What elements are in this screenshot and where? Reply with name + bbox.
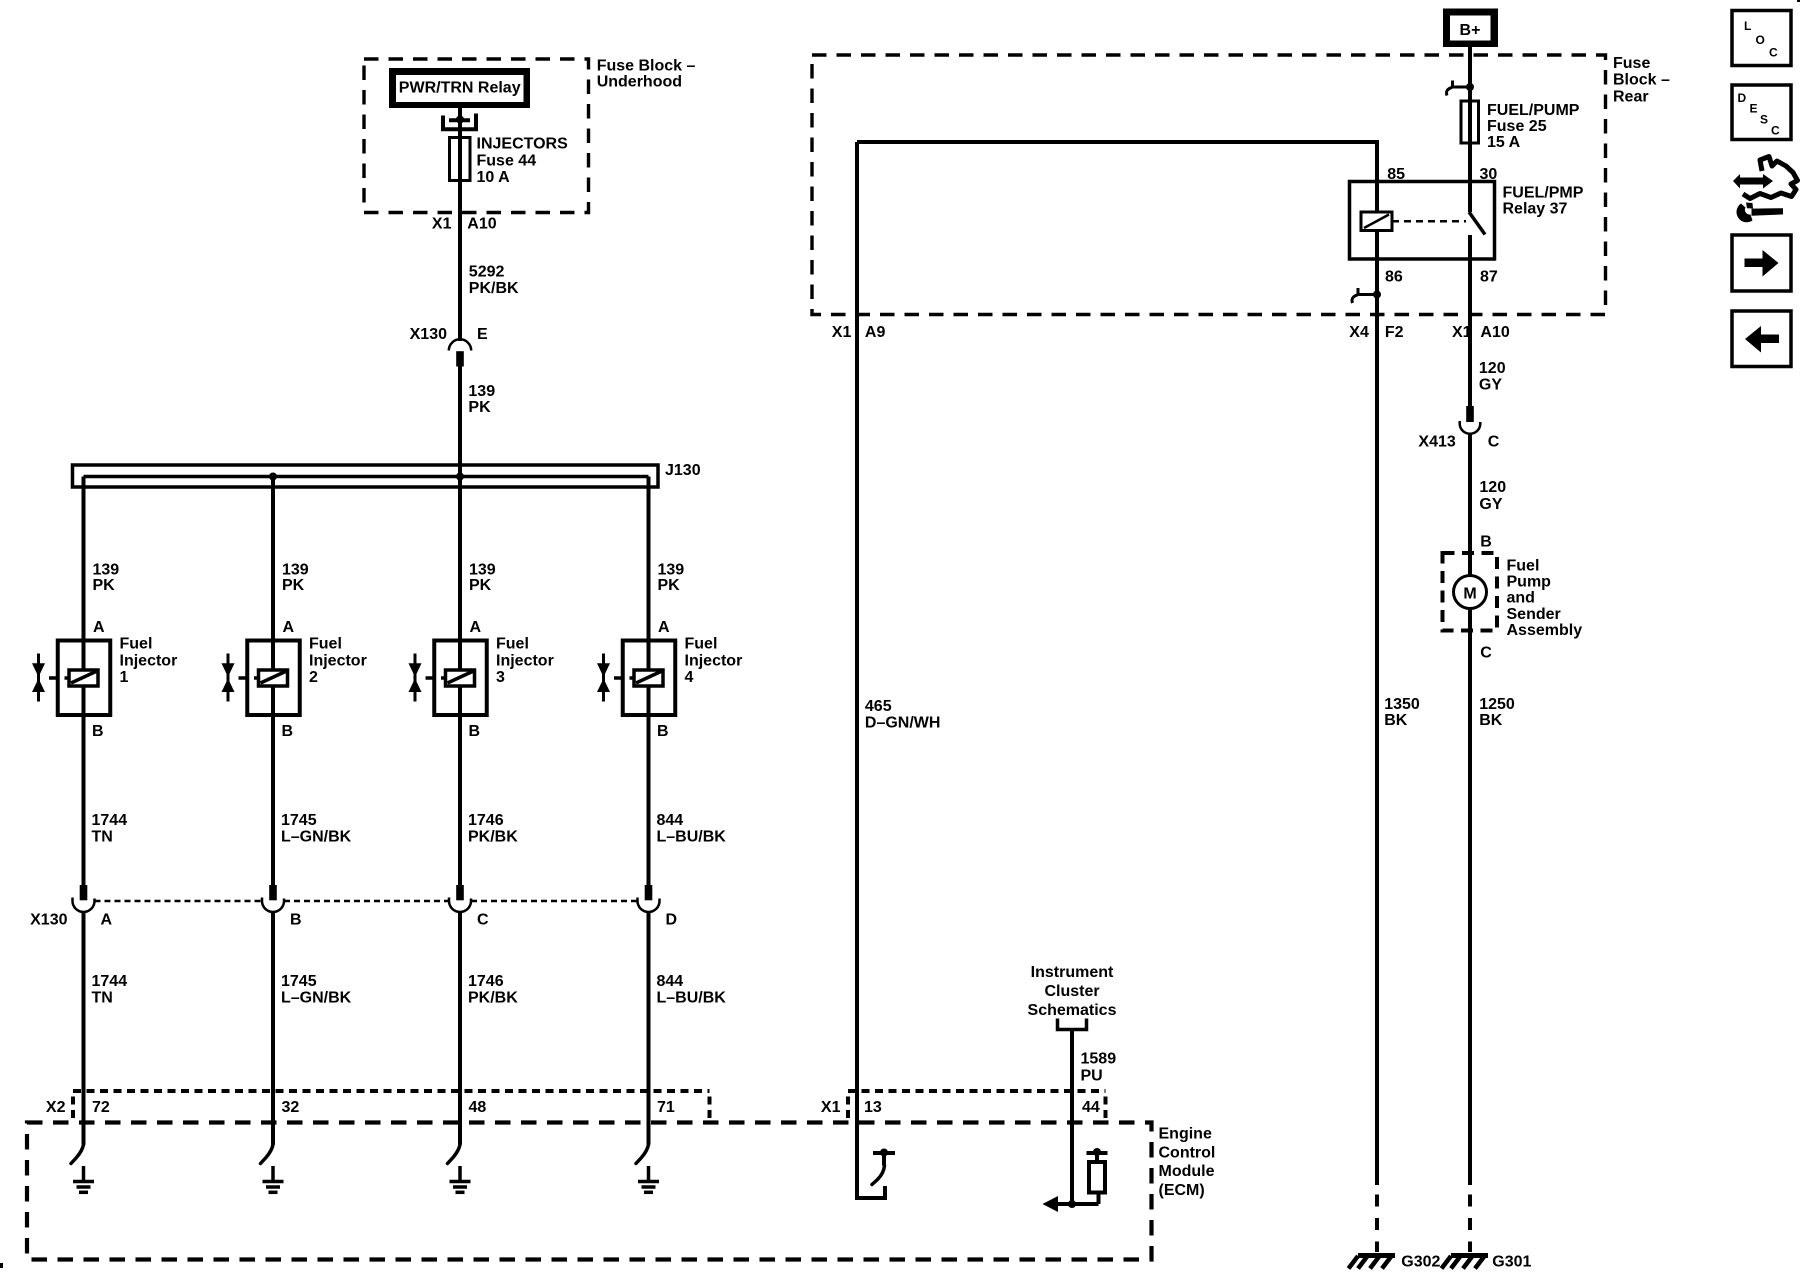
svg-text:Engine: Engine [1159, 1126, 1212, 1143]
svg-text:C: C [1488, 434, 1500, 451]
sidebar LOC icon [1732, 11, 1791, 66]
svg-text:Cluster: Cluster [1044, 983, 1099, 1000]
svg-text:13: 13 [864, 1099, 882, 1116]
svg-text:PU: PU [1081, 1068, 1103, 1085]
ECM connector X1 pin row [821, 1091, 1106, 1118]
svg-text:Instrument: Instrument [1031, 964, 1114, 981]
wire 139 PK drop 2 [271, 477, 275, 671]
svg-text:A9: A9 [865, 324, 886, 341]
svg-text:120: 120 [1479, 360, 1506, 377]
svg-text:Fuse: Fuse [1613, 55, 1650, 72]
junction node at J130 branch 3 [456, 473, 464, 481]
wire 844 to ECM pin 71 [647, 912, 651, 1145]
svg-text:FUEL/PMP: FUEL/PMP [1503, 185, 1584, 202]
svg-text:Fuel: Fuel [309, 636, 342, 653]
svg-text:72: 72 [92, 1099, 110, 1116]
svg-text:C: C [477, 912, 489, 929]
wire fuse to X130 E [458, 181, 462, 342]
svg-text:5292: 5292 [469, 264, 505, 281]
svg-text:X130: X130 [410, 326, 447, 343]
svg-text:Injector: Injector [309, 652, 367, 669]
svg-text:139: 139 [93, 562, 120, 579]
fuse block underhood dashed box [364, 59, 589, 213]
svg-text:Injector: Injector [120, 652, 178, 669]
ground (ECM internal) 1 [73, 1166, 94, 1192]
svg-text:PK: PK [93, 577, 116, 594]
svg-text:C: C [1480, 645, 1492, 662]
svg-text:Fuel: Fuel [496, 636, 529, 653]
svg-text:X1: X1 [832, 324, 852, 341]
svg-text:1744: 1744 [92, 973, 128, 990]
svg-text:139: 139 [282, 562, 309, 579]
svg-text:A: A [93, 619, 105, 636]
svg-text:G302: G302 [1401, 1254, 1440, 1271]
svg-text:L–GN/BK: L–GN/BK [281, 829, 352, 846]
svg-text:A: A [658, 619, 670, 636]
svg-text:X130: X130 [30, 912, 67, 929]
connector X130 E [410, 326, 488, 367]
ECM internal driver at pin 13 [857, 1149, 895, 1199]
svg-text:BK: BK [1479, 712, 1503, 729]
svg-text:Injector: Injector [496, 652, 554, 669]
svg-text:L–BU/BK: L–BU/BK [657, 990, 727, 1007]
svg-text:1745: 1745 [281, 812, 317, 829]
svg-text:139: 139 [658, 562, 685, 579]
svg-text:2: 2 [309, 669, 318, 686]
svg-text:Assembly: Assembly [1507, 622, 1583, 639]
svg-text:PK: PK [658, 577, 681, 594]
svg-text:X4: X4 [1349, 324, 1369, 341]
svg-text:A: A [101, 912, 113, 929]
svg-text:GY: GY [1479, 496, 1502, 513]
wire 139 PK to J130 [458, 367, 462, 477]
svg-text:1746: 1746 [468, 973, 504, 990]
svg-text:PK/BK: PK/BK [468, 990, 518, 1007]
svg-text:X413: X413 [1418, 434, 1455, 451]
svg-text:86: 86 [1385, 269, 1403, 286]
svg-text:PK: PK [282, 577, 305, 594]
svg-text:C: C [1769, 46, 1778, 60]
ECM connector X2 pin row [46, 1091, 710, 1118]
fuse holder clip (top) [1447, 81, 1474, 96]
svg-text:L–BU/BK: L–BU/BK [657, 829, 727, 846]
fuel injector 2 [222, 636, 367, 715]
svg-text:D: D [1738, 91, 1747, 105]
svg-text:1350: 1350 [1384, 696, 1420, 713]
svg-text:1250: 1250 [1479, 696, 1515, 713]
svg-text:B: B [290, 912, 302, 929]
fuel pump and sender assembly dashed box [1443, 553, 1498, 631]
svg-text:X1: X1 [821, 1099, 841, 1116]
connector X130 pin B [262, 885, 302, 929]
wire fuse 25 to relay pin 30 [1468, 143, 1472, 182]
fuel injector 4 [597, 636, 742, 715]
svg-text:1: 1 [120, 669, 129, 686]
instrument cluster schematics reference [1028, 964, 1117, 1030]
svg-text:4: 4 [685, 669, 694, 686]
svg-text:32: 32 [282, 1099, 300, 1116]
svg-text:71: 71 [657, 1099, 675, 1116]
relay switch [1469, 182, 1485, 315]
wire B+ to fuse 25 [1468, 47, 1472, 101]
svg-text:A10: A10 [1480, 324, 1509, 341]
fuel injector 1 [32, 636, 177, 715]
relay internal dashed link [1392, 220, 1466, 223]
svg-text:PWR/TRN Relay: PWR/TRN Relay [399, 80, 521, 97]
relay FUEL/PMP 37 box [1350, 182, 1495, 260]
svg-text:Pump: Pump [1507, 574, 1552, 591]
wire 465 vertical run to ECM pin 13 [855, 142, 859, 1198]
svg-text:Injector: Injector [685, 652, 743, 669]
svg-text:J130: J130 [665, 462, 701, 479]
wire 1250 BK [1468, 609, 1472, 1186]
dashed wire tail to G302 [1375, 1195, 1379, 1253]
svg-text:B: B [92, 723, 104, 740]
svg-text:B: B [1480, 534, 1492, 551]
svg-text:(ECM): (ECM) [1159, 1182, 1205, 1199]
svg-text:E: E [477, 326, 488, 343]
wire 844 from injector 4 [647, 686, 651, 885]
svg-text:TN: TN [92, 990, 113, 1007]
ECM driver switch 3 [448, 1145, 461, 1164]
svg-text:844: 844 [657, 812, 684, 829]
fuel pump motor M [1454, 576, 1487, 609]
wire 1745 from injector 2 [271, 686, 275, 885]
svg-text:10 A: 10 A [477, 169, 511, 186]
svg-text:Relay 37: Relay 37 [1503, 201, 1568, 218]
svg-text:A10: A10 [467, 216, 496, 233]
svg-text:3: 3 [496, 669, 505, 686]
svg-text:Schematics: Schematics [1028, 1002, 1117, 1019]
svg-text:1746: 1746 [468, 812, 504, 829]
ground (ECM internal) 3 [450, 1166, 471, 1192]
svg-text:B: B [657, 723, 669, 740]
dashed wire tail to G301 [1468, 1195, 1472, 1253]
svg-text:Control: Control [1159, 1144, 1216, 1161]
svg-text:1744: 1744 [92, 812, 128, 829]
wire 1744 to ECM pin 72 [82, 912, 86, 1145]
svg-text:E: E [1750, 102, 1758, 116]
ECM dashed box [27, 1123, 1152, 1260]
sidebar forward arrow icon [1732, 235, 1791, 291]
PWR/TRN Relay box [389, 68, 530, 108]
wire 139 PK drop 3 [458, 477, 462, 671]
svg-text:M: M [1463, 585, 1476, 602]
relay coil [1361, 182, 1392, 231]
svg-text:139: 139 [468, 383, 495, 400]
svg-text:BK: BK [1384, 712, 1408, 729]
svg-text:L–GN/BK: L–GN/BK [281, 990, 352, 1007]
wire relay 86 to X4 F2 [1375, 231, 1379, 315]
svg-text:D–GN/WH: D–GN/WH [865, 715, 941, 732]
wire 465 horizontal run to relay pin 85 [857, 142, 1377, 182]
wire 120 GY upper [1468, 315, 1472, 406]
svg-text:O: O [1756, 33, 1765, 47]
svg-text:Rear: Rear [1613, 88, 1649, 105]
ECM driver switch 2 [261, 1145, 274, 1164]
wire 1745 to ECM pin 32 [271, 912, 275, 1145]
svg-text:PK: PK [469, 577, 492, 594]
svg-text:465: 465 [865, 698, 892, 715]
svg-text:INJECTORS: INJECTORS [477, 136, 569, 153]
sidebar DESC icon [1732, 85, 1791, 140]
svg-text:Fuel: Fuel [120, 636, 153, 653]
wire 1746 to ECM pin 48 [458, 912, 462, 1145]
svg-text:G301: G301 [1492, 1254, 1531, 1271]
fuse 44 (INJECTORS) [450, 138, 471, 181]
ground G301 [1442, 1256, 1489, 1269]
B+ box [1443, 9, 1498, 48]
connector X130 dashed link [95, 900, 263, 903]
wire 120 GY lower [1468, 434, 1472, 576]
ECM driver switch 1 [71, 1145, 84, 1164]
wire 139 PK drop 1 [82, 477, 86, 671]
connector X130 pin C [449, 885, 489, 929]
svg-text:Fuel: Fuel [685, 636, 718, 653]
svg-text:Block –: Block – [1613, 72, 1670, 89]
svg-text:L: L [1744, 19, 1751, 33]
ECM driver switch 4 [636, 1145, 649, 1164]
svg-text:GY: GY [1479, 377, 1502, 394]
svg-text:A: A [470, 619, 482, 636]
fuel injector 3 [409, 636, 554, 715]
svg-text:139: 139 [469, 562, 496, 579]
svg-text:B: B [282, 723, 294, 740]
wire 1746 from injector 3 [458, 686, 462, 885]
svg-text:PK/BK: PK/BK [468, 829, 518, 846]
connector X413 [1418, 406, 1499, 451]
wire 1589 PU [1070, 1031, 1074, 1204]
svg-text:Fuel: Fuel [1507, 557, 1540, 574]
svg-text:PK: PK [468, 399, 491, 416]
splice pack J130 [73, 465, 659, 487]
ground (ECM internal) 2 [263, 1166, 284, 1192]
svg-text:Sender: Sender [1507, 606, 1561, 623]
svg-text:B+: B+ [1460, 22, 1481, 39]
svg-text:S: S [1760, 113, 1768, 127]
fuse 25 (FUEL/PUMP) [1461, 101, 1479, 143]
svg-text:TN: TN [92, 829, 113, 846]
svg-text:C: C [1771, 124, 1780, 138]
svg-text:44: 44 [1082, 1099, 1100, 1116]
fuse block rear dashed box [812, 55, 1606, 315]
svg-text:F2: F2 [1385, 324, 1404, 341]
svg-text:FUEL/PUMP: FUEL/PUMP [1487, 102, 1580, 119]
svg-text:120: 120 [1479, 479, 1506, 496]
ECM internal resistor circuit at pin 44 [1043, 1148, 1108, 1212]
svg-text:X2: X2 [46, 1099, 66, 1116]
svg-text:844: 844 [657, 973, 684, 990]
wire 1350 BK [1375, 315, 1379, 1185]
wire from relay to fuse holder [458, 108, 462, 138]
svg-text:Fuse Block –: Fuse Block – [597, 58, 696, 75]
svg-text:15 A: 15 A [1487, 134, 1521, 151]
svg-text:1745: 1745 [281, 973, 317, 990]
svg-text:1589: 1589 [1081, 1051, 1117, 1068]
sidebar diagnostic tools icon [1733, 157, 1798, 223]
svg-text:X1: X1 [432, 216, 452, 233]
sidebar back arrow icon [1732, 311, 1791, 367]
svg-text:48: 48 [469, 1099, 487, 1116]
svg-text:A: A [283, 619, 295, 636]
connector X130 pin D [638, 885, 678, 929]
wire 1744 from injector 1 [82, 686, 86, 885]
svg-text:Underhood: Underhood [597, 74, 682, 91]
fuse holder terminal [443, 114, 476, 130]
svg-text:87: 87 [1480, 269, 1498, 286]
svg-text:Fuse 25: Fuse 25 [1487, 118, 1547, 135]
svg-text:Module: Module [1159, 1163, 1215, 1180]
svg-text:Fuse 44: Fuse 44 [477, 152, 537, 169]
svg-text:and: and [1507, 590, 1535, 607]
junction node at J130 branch 2 [269, 473, 277, 481]
svg-text:B: B [469, 723, 481, 740]
wire 139 PK drop 4 [647, 477, 651, 671]
ground G302 [1349, 1256, 1396, 1269]
connector X130 pin A [73, 885, 113, 929]
svg-text:PK/BK: PK/BK [469, 280, 519, 297]
ground (ECM internal) 4 [638, 1166, 659, 1192]
svg-text:D: D [666, 912, 678, 929]
clip on wire 1350 [1352, 288, 1381, 303]
page edge marks [1797, 0, 1800, 2]
